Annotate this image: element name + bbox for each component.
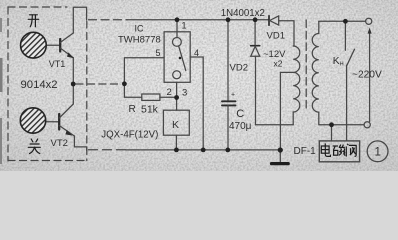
svg-text:9014x2: 9014x2 bbox=[21, 79, 58, 91]
svg-text:1N4001x2: 1N4001x2 bbox=[221, 8, 265, 19]
svg-text:5: 5 bbox=[156, 48, 161, 58]
svg-text:VD1: VD1 bbox=[267, 31, 285, 42]
svg-text:~220V: ~220V bbox=[352, 70, 382, 81]
svg-text:3: 3 bbox=[182, 88, 187, 99]
svg-text:K: K bbox=[172, 119, 179, 131]
svg-text:+: + bbox=[231, 92, 235, 99]
svg-text:C: C bbox=[236, 108, 244, 120]
svg-text:470μ: 470μ bbox=[229, 121, 252, 132]
svg-text:x2: x2 bbox=[274, 59, 283, 69]
svg-text:VT1: VT1 bbox=[49, 59, 66, 69]
svg-text:JQX-4F(12V): JQX-4F(12V) bbox=[101, 129, 158, 140]
svg-text:VT2: VT2 bbox=[51, 138, 68, 149]
svg-text:1: 1 bbox=[182, 21, 187, 31]
svg-text:2: 2 bbox=[167, 87, 172, 98]
svg-text:H: H bbox=[340, 61, 344, 67]
svg-text:1: 1 bbox=[375, 147, 381, 159]
svg-text:IC: IC bbox=[135, 24, 145, 34]
svg-text:R: R bbox=[129, 104, 136, 115]
svg-text:VD2: VD2 bbox=[230, 63, 248, 74]
svg-text:4: 4 bbox=[194, 48, 199, 58]
svg-text:51k: 51k bbox=[141, 104, 159, 116]
svg-text:TWH8778: TWH8778 bbox=[118, 35, 161, 46]
svg-text:DF-1: DF-1 bbox=[294, 146, 317, 157]
